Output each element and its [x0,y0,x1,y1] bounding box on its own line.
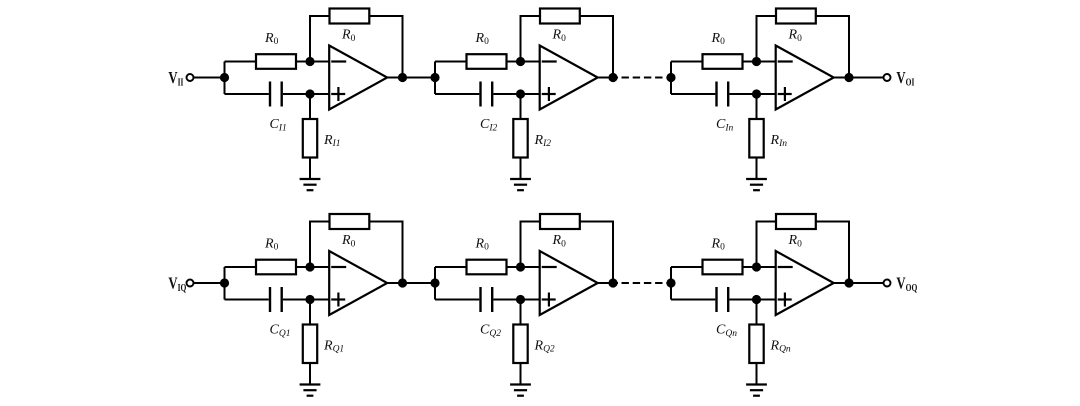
wire: bottom branch to capacitor C_Q1 [225,299,269,301]
wire: non-inverting node down to R_In [756,94,758,119]
resistor R_In [749,119,763,158]
node Q1b (inverting input junction) [305,262,314,271]
resistor R_Qn [749,325,763,364]
wire: bottom branch to capacitor C_In [671,93,715,95]
wire: op-amp output to output junction [598,282,618,284]
wire: feedback resistor to output node [580,16,613,78]
capacitor C_I1 [270,82,282,107]
wire: input junction vertical branch [434,62,436,95]
svg-text:R0: R0 [788,27,803,43]
svg-text:R0: R0 [552,233,567,249]
op-amp UQ1 [329,251,387,315]
wire: R_Q1 to ground [309,363,311,385]
wire: feedback riser from inverting input [310,222,330,268]
capacitor C_In [717,82,729,107]
wire: input junction vertical branch [670,267,672,300]
resistor R0 (series input, stage Q3) [703,260,743,275]
ground [746,179,767,190]
wire: top branch to series R0 [225,266,257,268]
wire: non-inverting node down to R_Q1 [309,300,311,325]
node I3c (non-inverting input junction) [752,89,761,98]
svg-text:VOQ: VOQ [896,275,917,293]
ground [300,179,321,190]
svg-text:VII: VII [168,70,184,88]
node I1c (non-inverting input junction) [305,89,314,98]
wire: op-amp output to output terminal [834,77,884,79]
resistor R0 (series input, stage I3) [703,54,743,69]
resistor R0 (feedback, stage I2) [540,9,580,24]
capacitor C_Q1 [270,287,282,312]
wire: terminal V_II to stage-1 input node [194,77,225,79]
wire: series R0 to inverting input [743,266,777,268]
svg-text:CQ2: CQ2 [480,323,501,339]
wire: top branch to series R0 [435,61,467,63]
wire: series R0 to inverting input [507,266,541,268]
resistor R0 (feedback, stage I3) [776,9,816,24]
wire: feedback resistor to output node [369,16,402,78]
svg-text:CIn: CIn [716,117,734,133]
wire: feedback resistor to output node [816,16,849,78]
resistor R_Q2 [513,325,527,364]
resistor R0 (feedback, stage Q2) [540,214,580,229]
output terminal V_OI [884,74,891,81]
node I2c (non-inverting input junction) [516,89,525,98]
node Q1c (non-inverting input junction) [305,295,314,304]
wire: input junction vertical branch [224,267,226,300]
wire: input junction vertical branch [670,62,672,95]
resistor R0 (feedback, stage I1) [330,9,370,24]
node Q2d (stage-2 output junction) [608,278,617,287]
svg-text:RI1: RI1 [323,133,340,149]
svg-text:R0: R0 [475,31,490,47]
resistor R0 (series input, stage I1) [256,54,296,69]
wire: input junction vertical branch [224,62,226,95]
svg-text:R0: R0 [788,233,803,249]
svg-text:CQn: CQn [716,323,737,339]
wire: feedback riser from inverting input [757,16,777,62]
input terminal V_II [187,74,194,81]
resistor R0 (feedback, stage Q1) [330,214,370,229]
op-amp UQ2 [540,251,598,315]
node Q3b (inverting input junction) [752,262,761,271]
node I3a (stage 3 input junction) [666,73,675,82]
wire: R_In to ground [756,158,758,180]
wire: feedback resistor to output node [580,222,613,284]
resistor R_I2 [513,119,527,158]
svg-text:VIQ: VIQ [168,275,186,293]
node Q1d (stage-1 output junction) [398,278,407,287]
wire: feedback riser from inverting input [310,16,330,62]
wire: capacitor C_Qn to non-inverting input [729,299,776,301]
wire: R_I2 to ground [520,158,522,180]
wire: feedback resistor to output node [369,222,402,284]
wire: R_I1 to ground [309,158,311,180]
wire: non-inverting node down to R_Q2 [520,300,522,325]
svg-text:RQn: RQn [770,338,791,354]
wire: op-amp output to output junction [598,77,618,79]
wire: series R0 to inverting input [296,61,330,63]
wire: feedback riser from inverting input [757,222,777,268]
capacitor C_Qn [717,287,729,312]
svg-text:CI1: CI1 [270,117,287,133]
node I1d (stage-1 output junction) [398,73,407,82]
capacitor C_I2 [481,82,493,107]
wire: top branch to series R0 [671,266,703,268]
wire: capacitor C_I2 to non-inverting input [493,93,540,95]
node I1b (inverting input junction) [305,57,314,66]
wire: feedback riser from inverting input [521,16,541,62]
wire: top branch to series R0 [225,61,257,63]
resistor R0 (feedback, stage Q3) [776,214,816,229]
node Q3d (stage-n output junction) [844,278,853,287]
op-amp UI1 [329,46,387,110]
node Q2c (non-inverting input junction) [516,295,525,304]
wire: capacitor C_I1 to non-inverting input [283,93,330,95]
wire: op-amp output to output terminal [834,282,884,284]
wire: series R0 to inverting input [743,61,777,63]
resistor R_Q1 [303,325,317,364]
node I3d (stage-n output junction) [844,73,853,82]
op-amp UI3 [776,46,834,110]
ground [300,385,321,396]
wire: non-inverting node down to R_I2 [520,94,522,119]
node Q2b (inverting input junction) [516,262,525,271]
svg-text:R0: R0 [711,236,726,252]
node I3b (inverting input junction) [752,57,761,66]
node Q2a (stage 2 input junction) [430,278,439,287]
wire: bottom branch to capacitor C_I1 [225,93,269,95]
wire: capacitor C_Q1 to non-inverting input [283,299,330,301]
wire: R_Qn to ground [756,363,758,385]
resistor R_I1 [303,119,317,158]
wire: dashed continuation to stage n [622,77,672,79]
svg-text:VOI: VOI [896,70,914,88]
ground [510,179,531,190]
node I2a (stage 2 input junction) [430,73,439,82]
svg-text:CQ1: CQ1 [270,323,291,339]
wire: op-amp output to stage-2 input [387,77,435,79]
wire: feedback resistor to output node [816,222,849,284]
node Q3a (stage 3 input junction) [666,278,675,287]
node I2b (inverting input junction) [516,57,525,66]
resistor R0 (series input, stage Q2) [467,260,507,275]
svg-text:R0: R0 [264,236,279,252]
wire: series R0 to inverting input [296,266,330,268]
wire: bottom branch to capacitor C_Qn [671,299,715,301]
svg-text:CI2: CI2 [480,117,498,133]
svg-text:R0: R0 [341,233,356,249]
node Q3c (non-inverting input junction) [752,295,761,304]
wire: top branch to series R0 [435,266,467,268]
wire: terminal V_IQ to stage-1 input node [194,282,225,284]
node I1a (stage 1 input junction) [220,73,229,82]
output terminal V_OQ [884,280,891,287]
svg-text:R0: R0 [264,31,279,47]
capacitor C_Q2 [481,287,493,312]
resistor R0 (series input, stage Q1) [256,260,296,275]
wire: bottom branch to capacitor C_I2 [435,93,479,95]
svg-text:RQ2: RQ2 [534,338,555,354]
svg-text:R0: R0 [711,31,726,47]
node I2d (stage-2 output junction) [608,73,617,82]
wire: feedback riser from inverting input [521,222,541,268]
wire: bottom branch to capacitor C_Q2 [435,299,479,301]
wire: input junction vertical branch [434,267,436,300]
ground [510,385,531,396]
svg-text:RQ1: RQ1 [323,338,344,354]
svg-text:R0: R0 [475,236,490,252]
op-amp UI2 [540,46,598,110]
wire: non-inverting node down to R_I1 [309,94,311,119]
wire: dashed continuation to stage n [622,282,672,284]
svg-text:RI2: RI2 [534,133,552,149]
wire: capacitor C_Q2 to non-inverting input [493,299,540,301]
input terminal V_IQ [187,280,194,287]
wire: non-inverting node down to R_Qn [756,300,758,325]
svg-text:RIn: RIn [770,133,788,149]
wire: capacitor C_In to non-inverting input [729,93,776,95]
svg-text:R0: R0 [341,27,356,43]
wire: R_Q2 to ground [520,363,522,385]
wire: series R0 to inverting input [507,61,541,63]
resistor R0 (series input, stage I2) [467,54,507,69]
node Q1a (stage 1 input junction) [220,278,229,287]
ground [746,385,767,396]
wire: top branch to series R0 [671,61,703,63]
wire: op-amp output to stage-2 input [387,282,435,284]
op-amp UQ3 [776,251,834,315]
svg-text:R0: R0 [552,27,567,43]
